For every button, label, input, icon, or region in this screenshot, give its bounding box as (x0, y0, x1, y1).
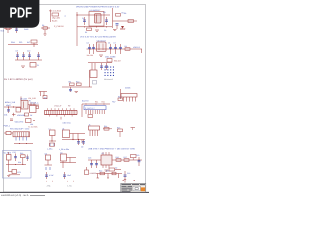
capacitor C1 (82, 17, 86, 25)
node VCC3V3 label (110, 6, 120, 9)
op-amp U1 regulator core (89, 12, 104, 27)
wire U3 bottom rail (14, 143, 33, 144)
svg-text:VCC 3.3V TO 1.8V LDO REGULATOR: VCC 3.3V TO 1.8V LDO REGULATOR (80, 36, 116, 39)
resistor R6 (41, 24, 50, 34)
battery BT1 (9, 170, 21, 175)
op-amp U5 (right block IC) (101, 152, 112, 168)
node labels on bus (11, 41, 31, 44)
capacitor C23 (114, 42, 118, 55)
value labels above bus (95, 101, 105, 104)
revision note table (top left) (49, 10, 67, 29)
svg-text:GND VCC: GND VCC (63, 122, 72, 125)
svg-text:chg LDO: chg LDO (52, 17, 60, 20)
node label USB section (88, 148, 136, 151)
resistor R18 (16, 108, 21, 113)
connector J1 (right) (121, 87, 138, 102)
svg-text:R14: R14 (104, 125, 107, 128)
title block (121, 183, 146, 192)
wire bus rail (82, 103, 110, 117)
node label W int (18, 161, 21, 164)
node label L_05 (59, 148, 70, 151)
node labels near U1 (90, 9, 107, 14)
ground (right block) (105, 170, 109, 171)
capacitor C17 (63, 172, 72, 179)
node label VBAT (6, 104, 12, 107)
testpoint grid TP (105, 67, 115, 77)
wire chain up (89, 70, 91, 87)
svg-text:1: 1 (67, 180, 68, 183)
capacitor C24 (119, 44, 122, 54)
svg-text:Y1 32.768K: Y1 32.768K (28, 126, 38, 129)
resistor R3 (124, 12, 134, 23)
inductor L2 cluster (62, 127, 85, 143)
highlight box W_Time (3, 151, 32, 179)
op-amp U2 regulator core (97, 39, 107, 51)
diode D1 (120, 26, 125, 29)
value label (U2 input) (87, 54, 94, 57)
mixed label row 1 (4, 113, 26, 117)
node label +5 (112, 101, 116, 104)
capacitor C9 (22, 52, 25, 60)
ground (top cluster) (95, 30, 99, 31)
wire U6 input rail (4, 106, 21, 107)
node label L 7a (68, 185, 73, 188)
wire W drop (8, 165, 10, 173)
transistor Q5 (85, 167, 96, 175)
node box NC (93, 81, 97, 85)
resistor R9 (69, 80, 75, 85)
svg-text:C10: C10 (27, 50, 30, 53)
wire decoupling rail (15, 59, 42, 61)
capacitor C7 (15, 24, 19, 34)
node label L_05a (47, 148, 53, 151)
op-amp U6 (PMIC) (20, 97, 36, 109)
mixed label row 2 (10, 119, 24, 124)
capacitor C3 (116, 24, 119, 30)
resistor R7 (31, 40, 37, 47)
wire bottom rail (77, 26, 112, 28)
footer text (1, 194, 45, 197)
capacitor C16 (45, 172, 54, 179)
svg-text:R10: R10 (76, 80, 79, 83)
svg-text:C31: C31 (4, 114, 7, 117)
svg-text:C4: C4 (87, 42, 89, 45)
resistor R14 (103, 125, 112, 130)
svg-text:CON5: CON5 (125, 87, 130, 90)
wire bus mid-left (8, 43, 38, 45)
svg-text:USB OTG + ESD PROTECT + MIC DE: USB OTG + ESD PROTECT + MIC DETECT CIRC (88, 148, 136, 151)
transistor Q2 (7, 152, 12, 165)
resistor network RN1 (bottom right row) (96, 170, 122, 179)
left cluster row: resistor R5 (4, 25, 12, 33)
svg-text:P2: P2 (68, 105, 70, 108)
svg-text:C8: C8 (16, 50, 18, 53)
capacitor C25 (77, 139, 80, 145)
resistor R13 (20, 152, 25, 165)
junction dots U4 rail (51, 139, 73, 142)
svg-text:F1: F1 (37, 64, 39, 67)
svg-text:C20: C20 (136, 154, 139, 157)
wire right mid rail (88, 62, 112, 64)
wire mid right horizontal (113, 20, 138, 22)
capacitor C15 (13, 151, 18, 161)
svg-text:2: 2 (52, 180, 53, 183)
pin label 1 (L7a) (67, 180, 74, 183)
wire W block rail (6, 164, 26, 165)
note text Fix 1.8V (4, 78, 33, 81)
svg-text:JTAG_IF: JTAG_IF (54, 105, 62, 108)
node VIN label (top blue text row) (76, 5, 111, 8)
svg-text:fix pin: fix pin (52, 20, 57, 23)
ground (mid chain) (75, 92, 79, 93)
resistor R1 (85, 28, 92, 34)
inductor L1 cluster (49, 127, 57, 146)
pin label 1 (J7a) (46, 180, 53, 183)
crystal Y1 (4, 132, 13, 135)
svg-text:5V0: 5V0 (1, 30, 4, 33)
capacitor C21 (7, 107, 10, 113)
svg-text:P_CHK 5V: P_CHK 5V (54, 25, 64, 28)
resistor R21 (50, 143, 55, 146)
capacitor C28 (26, 155, 29, 162)
node label row (right mid) (105, 56, 121, 63)
svg-text:VDD1.8: VDD1.8 (133, 46, 140, 49)
svg-text:U6 LDO: U6 LDO (20, 98, 27, 101)
svg-text:C6: C6 (108, 42, 110, 45)
svg-text:VDD18_A: VDD18_A (30, 102, 39, 105)
wire mid chain rail (62, 86, 92, 88)
ground (right of cluster A) (113, 30, 117, 31)
value label row (cluster A) (120, 28, 125, 31)
svg-text:BT1: BT1 (18, 171, 21, 174)
connector J5 (top of right block) (89, 123, 100, 136)
svg-text:R9: R9 (69, 80, 71, 83)
capacitor C12 (69, 87, 72, 92)
value label 10K (30, 123, 34, 126)
svg-text:L1: L1 (49, 127, 51, 130)
PDF badge (0, 0, 39, 28)
ground (left row) (44, 34, 47, 35)
svg-text:R17: R17 (124, 156, 127, 159)
resistor R4 (125, 45, 131, 51)
svg-text:1: 1 (46, 180, 47, 183)
node label legend (4, 125, 11, 128)
bus label box (84, 106, 106, 110)
capacitor bank C8 (16, 50, 20, 61)
svg-text:PWR: PWR (24, 28, 29, 31)
svg-text:mini2440-sch (v1.0) · rev A: mini2440-sch (v1.0) · rev A (1, 194, 29, 197)
svg-text:R33 4K7: R33 4K7 (114, 60, 121, 63)
svg-text:R3: R3 (124, 12, 126, 15)
bus rip wires (86, 110, 104, 114)
resistor R24 (88, 115, 93, 118)
svg-text:RTC BACKUP + OSC: RTC BACKUP + OSC (10, 127, 30, 130)
capacitor C18 (88, 157, 93, 169)
svg-text:Q3: Q3 (45, 152, 47, 155)
svg-text:Rev 1.0 2012: Rev 1.0 2012 (49, 10, 62, 13)
svg-text:VBAT: VBAT (6, 104, 12, 107)
svg-text:C2: C2 (104, 29, 106, 32)
wire feed corner (20, 97, 22, 102)
resistor R16 (116, 156, 122, 161)
svg-text:J5: J5 (89, 123, 91, 126)
connector J2 (left column) (29, 100, 36, 113)
resistor R17 (124, 156, 130, 161)
svg-text:2: 2 (73, 180, 74, 183)
resistor R11 (right mid) (90, 63, 97, 78)
node label VDD18 out (133, 46, 142, 53)
svg-text:R1: R1 (85, 31, 87, 34)
svg-text:C15: C15 (13, 151, 16, 154)
svg-text:VIN 5V USB POWER IN PROTECT: VIN 5V USB POWER IN PROTECT (76, 5, 111, 8)
capacitor C19 (95, 160, 98, 168)
wire U6 out (28, 104, 36, 106)
node label BPMU (5, 101, 15, 104)
svg-text:32k: 32k (18, 161, 21, 164)
resistor R15 (117, 126, 123, 137)
resistor R8 (30, 63, 39, 68)
svg-text:R12: R12 (118, 95, 121, 98)
junction dots cluster A (76, 14, 107, 27)
diode D3 (131, 155, 137, 161)
capacitor C20 (136, 154, 140, 166)
svg-text:P1: P1 (29, 100, 31, 103)
capacitor C4 (87, 42, 92, 55)
resistor R20 (26, 119, 36, 123)
transistor Q3 cluster (45, 152, 53, 170)
svg-text:BPMU_1V8: BPMU_1V8 (5, 101, 15, 104)
svg-text:SCL: SCL (19, 41, 23, 44)
note text grey (104, 78, 113, 81)
node label out right (30, 102, 39, 109)
ground (U2 cluster) (99, 55, 103, 56)
testpoint marks above title block (123, 180, 136, 182)
svg-text:L_05 to 05a: L_05 to 05a (59, 148, 70, 151)
svg-text:U4: U4 (62, 127, 64, 130)
wire U2 rail (87, 48, 143, 49)
svg-text:U1 AMS1117: U1 AMS1117 (90, 9, 101, 12)
capacitor C5 (92, 44, 95, 54)
capacitor C10 (27, 50, 31, 61)
capacitor C26 (81, 140, 85, 149)
svg-text:R6: R6 (42, 24, 44, 27)
resistor R12 (118, 95, 123, 100)
node label below badge (1, 30, 4, 33)
svg-text:W_Time: W_Time (4, 152, 12, 155)
capacitor C22 (124, 171, 131, 183)
connector J3 pin header 2x20 (45, 105, 78, 125)
op-amp U3 row (13, 132, 30, 141)
sheet border frame (0, 5, 149, 193)
node label buzzer (82, 100, 89, 103)
svg-text:VDD_RTC: VDD_RTC (15, 121, 25, 124)
svg-text:VDD_CORE: VDD_CORE (105, 56, 116, 59)
svg-text:C1: C1 (82, 17, 84, 20)
svg-text:C22: C22 (127, 172, 130, 175)
wire right block right rail (112, 159, 142, 160)
capacitor C11 (37, 52, 40, 60)
node label W block header (10, 126, 38, 131)
svg-text:10u 104: 10u 104 (87, 54, 94, 57)
svg-text:R41: R41 (95, 101, 98, 104)
node label PWR (24, 28, 29, 31)
svg-text:R15: R15 (117, 126, 120, 129)
resistor R2 (116, 12, 124, 17)
svg-text:C9: C9 (81, 146, 83, 149)
node label second row (80, 36, 116, 39)
svg-text:PDF: PDF (10, 6, 33, 22)
svg-text:BUZ 5V: BUZ 5V (82, 100, 89, 103)
wire top rail (77, 14, 110, 16)
testpoint TP2 (131, 128, 136, 131)
wire right block left rail (88, 159, 101, 161)
svg-text:Q1: Q1 (44, 96, 47, 99)
capacitor C14 (105, 63, 108, 70)
svg-text:U2 LM1117: U2 LM1117 (97, 39, 107, 42)
svg-text:Fix 1.8V to BPMU (for pwr): Fix 1.8V to BPMU (for pwr) (4, 78, 33, 81)
wire W bottom (9, 174, 20, 176)
svg-text:U5: U5 (102, 152, 104, 155)
transistor Q4 cluster (60, 151, 76, 168)
svg-text:SS8050: SS8050 (90, 172, 96, 175)
svg-text:C18: C18 (88, 157, 91, 160)
capacitor C6 (108, 42, 112, 55)
svg-text:VCC 3.3V: VCC 3.3V (110, 6, 120, 9)
wire right branch vertical (112, 8, 114, 28)
transistor Q1 (39, 92, 47, 100)
svg-text:R16: R16 (116, 156, 119, 159)
wire VIN vertical (76, 12, 78, 46)
diode D2 ESD (109, 167, 121, 172)
resistor R19 (25, 113, 34, 117)
ground (W block) (7, 175, 10, 176)
capacitor C2 (104, 17, 108, 32)
ground (decoupling) (21, 66, 25, 67)
svg-text:104 x2: 104 x2 (120, 28, 125, 31)
svg-text:PWR_1: PWR_1 (4, 125, 11, 128)
svg-text:S_DAT 0..7: S_DAT 0..7 (85, 107, 95, 110)
svg-text:D2: D2 (115, 167, 117, 170)
node label J 7a (47, 185, 52, 188)
capacitor C13 (100, 63, 103, 70)
svg-text:Measured: Measured (104, 78, 113, 81)
svg-text:R13: R13 (20, 152, 23, 155)
svg-text:R42: R42 (102, 101, 105, 104)
svg-text:R22: R22 (99, 170, 102, 173)
resistor R10 (76, 80, 81, 85)
svg-text:C7: C7 (114, 42, 116, 45)
svg-text:R4: R4 (125, 45, 127, 48)
svg-text:Q4: Q4 (60, 151, 62, 154)
